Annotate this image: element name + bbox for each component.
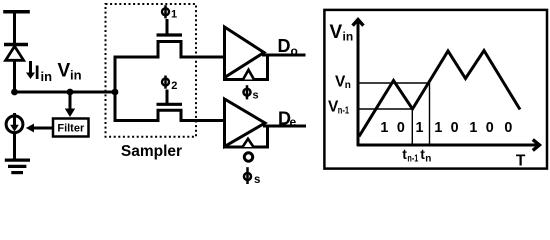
- comparator U2 clock bubble: [244, 153, 252, 161]
- arrow filter to current source: [31, 127, 53, 130]
- svg-text:0: 0: [486, 120, 494, 136]
- comparator U2 clock wedge: [243, 139, 254, 147]
- junction dot left: [11, 89, 18, 96]
- label phis bottom: [244, 173, 251, 180]
- svg-text:1: 1: [171, 9, 177, 21]
- comparator U2 output wire: [263, 125, 306, 128]
- sampler input bus: [114, 57, 117, 121]
- switch M1 gate bar: [157, 33, 183, 36]
- Vn-1 level line: [358, 108, 412, 110]
- junction dot Vin: [67, 89, 74, 96]
- switch M2 channel right: [180, 119, 226, 122]
- svg-text:n-1: n-1: [338, 105, 350, 116]
- node wire Vin: [15, 91, 116, 94]
- svg-text:V: V: [58, 61, 71, 82]
- svg-text:Sampler: Sampler: [121, 143, 182, 160]
- y axis: [357, 21, 360, 146]
- junction dot sampler: [112, 89, 119, 96]
- comparator U1 clock wedge: [243, 70, 254, 80]
- Vn level line: [358, 82, 430, 84]
- wire node to filter: [69, 92, 72, 110]
- svg-text:Filter: Filter: [57, 122, 85, 134]
- svg-text:2: 2: [171, 80, 177, 92]
- svg-text:T: T: [516, 153, 526, 170]
- filter box: [53, 119, 89, 137]
- label phis top: [244, 89, 251, 96]
- graph border: [324, 10, 547, 169]
- svg-text:D: D: [278, 36, 291, 56]
- svg-text:V: V: [330, 22, 343, 43]
- switch M2 bump: [158, 110, 181, 122]
- svg-text:in: in: [343, 30, 354, 44]
- svg-text:0: 0: [451, 120, 459, 136]
- switch M2 channel left: [114, 119, 160, 122]
- ground: [5, 159, 30, 162]
- svg-text:1: 1: [380, 120, 388, 136]
- svg-text:s: s: [254, 174, 260, 184]
- comparator U1 right vertical: [266, 54, 269, 80]
- tn-1 vertical: [411, 109, 413, 145]
- label phi1: [162, 8, 169, 15]
- sampler dashed box: [106, 4, 197, 137]
- tn vertical: [429, 83, 431, 145]
- wire top bar to diode: [13, 12, 16, 44]
- svg-text:e: e: [290, 115, 297, 129]
- label phi2: [162, 79, 169, 86]
- x axis: [357, 144, 538, 147]
- current source I1: [6, 116, 23, 133]
- comparator U2 right vertical: [266, 125, 269, 148]
- svg-text:I: I: [35, 63, 40, 84]
- svg-text:n-1: n-1: [407, 153, 418, 164]
- switch M1 bump: [158, 42, 181, 59]
- switch M1 channel left: [114, 56, 160, 59]
- comparator U2 bottom rail: [223, 146, 269, 149]
- svg-text:0: 0: [504, 120, 512, 136]
- wire diode to node: [13, 60, 16, 93]
- svg-text:1: 1: [434, 120, 442, 136]
- switch M2 gate wire: [166, 90, 169, 105]
- svg-text:1: 1: [416, 120, 424, 136]
- svg-text:in: in: [41, 69, 53, 84]
- diode D1 cathode bar: [4, 43, 28, 47]
- switch M1 gate wire: [166, 19, 169, 35]
- current source arrow: [13, 113, 16, 126]
- comparator U1 output wire: [262, 54, 306, 57]
- svg-text:0: 0: [397, 120, 405, 136]
- svg-text:in: in: [70, 68, 82, 83]
- waveform: [359, 51, 520, 137]
- comparator U1 triangle: [225, 27, 265, 78]
- comparator U2 triangle: [225, 99, 266, 147]
- arrow Iin: [29, 61, 32, 74]
- svg-text:s: s: [253, 90, 259, 102]
- top electrode bar: [3, 10, 30, 14]
- svg-text:1: 1: [469, 120, 477, 136]
- diode D1 triangle: [6, 46, 24, 60]
- wire source to ground: [13, 133, 16, 160]
- svg-text:o: o: [291, 44, 298, 58]
- switch M2 gate bar: [157, 103, 183, 106]
- switch M1 channel right: [180, 56, 226, 59]
- comparator U1 bottom rail: [223, 78, 269, 81]
- svg-text:n: n: [425, 153, 431, 164]
- svg-text:n: n: [345, 80, 351, 91]
